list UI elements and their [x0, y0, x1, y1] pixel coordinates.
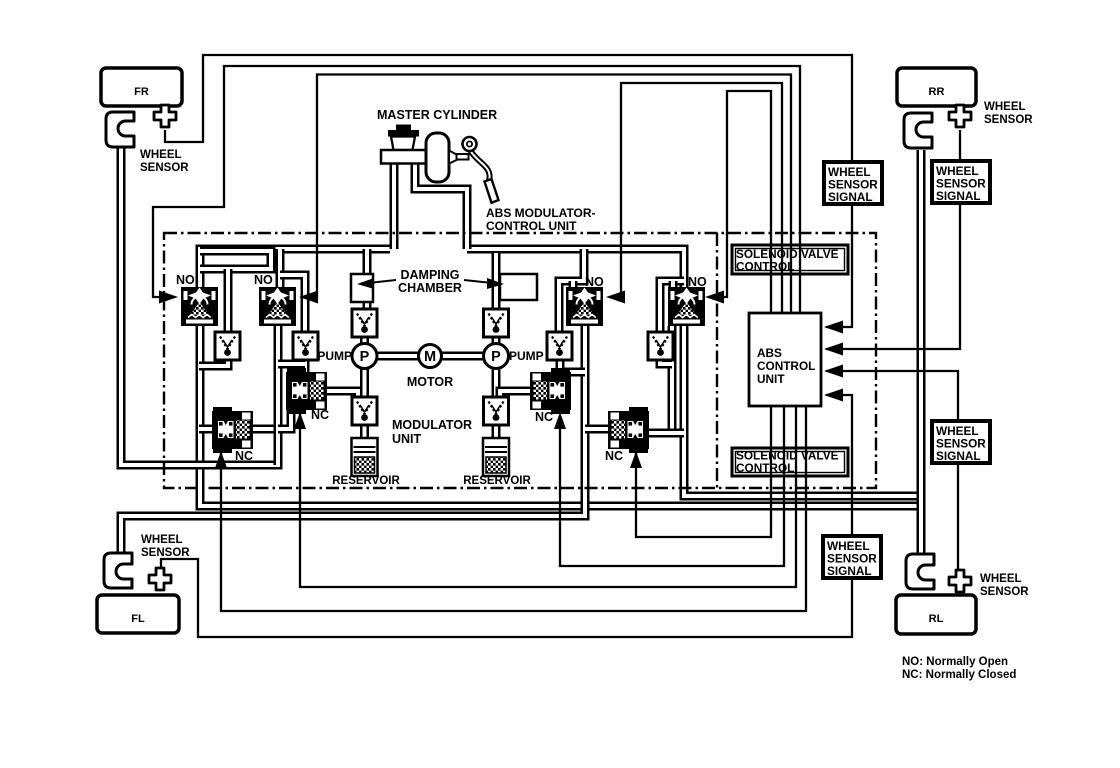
- pipe: NC2 valve to pump suction: [327, 391, 358, 400]
- pipe: NC2 valve bottom stub: [278, 410, 291, 429]
- svg-text:MODULATOR: MODULATOR: [392, 418, 472, 432]
- svg-text:NO: NO: [176, 273, 195, 287]
- pipe: pump R to lower check: [492, 367, 501, 400]
- arrow: RR sensor signal into ABS control unit: [824, 343, 843, 356]
- NO solenoid valve 1: [181, 287, 218, 326]
- svg-text:DAMPING: DAMPING: [400, 268, 459, 282]
- wire: FR wheel sensor signal: [165, 55, 852, 327]
- wire: solenoid control to NO valve 1: [153, 66, 800, 313]
- pipe: valve4 supply jog to check6: [660, 281, 684, 334]
- solenoid valve control box (top): [732, 245, 848, 274]
- pipe: valve3 supply jog to check5: [559, 249, 584, 334]
- svg-text:CHAMBER: CHAMBER: [398, 281, 462, 295]
- arrow into NC valve 2: [294, 412, 306, 429]
- RL wheel box: [896, 595, 976, 634]
- svg-text:UNIT: UNIT: [392, 432, 422, 446]
- FL wheel sensor: [149, 568, 171, 590]
- wire: solenoid control to NO valve 2: [309, 75, 791, 314]
- wire: RR wheel sensor signal: [826, 130, 960, 349]
- pump P left: [352, 344, 377, 369]
- pipe: valve4 inlet stub: [669, 281, 678, 287]
- arrow to damping chamber 1: [369, 280, 396, 283]
- check valve 1 (NO1 bypass): [215, 332, 240, 360]
- NC solenoid valve 1: [212, 407, 253, 453]
- master cylinder with booster and brake pedal: [381, 125, 499, 203]
- pipe: valve1 inlet ring: [200, 251, 271, 269]
- NC solenoid valve 3: [608, 407, 649, 453]
- pipe: pump L to lower check: [360, 367, 369, 400]
- svg-text:FL: FL: [131, 613, 145, 625]
- arrow: FL sensor signal into ABS control unit: [824, 389, 843, 402]
- ABS control unit box: [749, 313, 821, 406]
- pipe: FR brake line from bracket + NC1 output riser: [121, 148, 278, 465]
- FL wheel sensor bracket: [104, 553, 132, 588]
- svg-text:NO: NO: [585, 275, 604, 289]
- arrow into NO valve 1: [159, 291, 178, 304]
- reservoir left: [352, 438, 378, 476]
- pump P right: [484, 344, 509, 369]
- svg-text:RL: RL: [929, 613, 944, 625]
- wire: RL wheel sensor signal: [826, 371, 958, 571]
- arrow into NO valve 4: [705, 291, 724, 304]
- arrow into NO valve 3: [606, 291, 625, 304]
- NO solenoid valve 3: [566, 287, 603, 326]
- svg-text:PUMP: PUMP: [317, 349, 352, 363]
- NC solenoid valve 4: [530, 368, 571, 414]
- svg-text:NO: NO: [688, 275, 707, 289]
- svg-text:ABS MODULATOR-: ABS MODULATOR-: [486, 206, 596, 220]
- arrow to damping chamber 2: [464, 280, 492, 283]
- svg-text:NC: NC: [535, 410, 553, 424]
- reservoir right: [483, 438, 509, 476]
- FR wheel sensor: [154, 105, 176, 127]
- solenoid valve control box (bottom): [732, 448, 848, 476]
- pipe: supply right run + RR brake line drop: [467, 249, 921, 496]
- svg-text:PUMP: PUMP: [509, 349, 544, 363]
- pipe: check2 bypass drop: [280, 275, 305, 334]
- pipe: valve3 inlet stub: [569, 281, 578, 288]
- arrow: FR sensor signal into ABS control unit: [824, 321, 843, 334]
- svg-text:FR: FR: [134, 86, 149, 98]
- pipe: lower check to reservoir R: [492, 420, 501, 440]
- wire: solenoid control to NO valve 4: [719, 91, 771, 313]
- pipe: damping chamber 1 drop: [363, 249, 372, 312]
- svg-text:UNIT: UNIT: [757, 372, 785, 386]
- svg-text:NO: Normally Open: NO: Normally Open: [902, 656, 1008, 668]
- svg-text:NC: Normally Closed: NC: Normally Closed: [902, 669, 1016, 681]
- wire: solenoid control to NC valve 1: [221, 406, 806, 611]
- svg-text:CONTROL: CONTROL: [736, 461, 794, 475]
- pipe: NC3 valve left pipe: [585, 425, 609, 434]
- pipe: check1 bypass drop: [224, 269, 233, 334]
- svg-text:SENSOR: SENSOR: [980, 586, 1029, 598]
- pipe: damping chamber 2 drop: [492, 253, 501, 312]
- pipe: motor shaft left: [377, 352, 418, 361]
- wheel sensor signal label box (RL line): [932, 421, 990, 463]
- svg-text:SIGNAL: SIGNAL: [936, 449, 981, 463]
- damping chamber 1: [351, 274, 373, 302]
- svg-text:SENSOR: SENSOR: [141, 547, 190, 559]
- wire: solenoid control to NO valve 3: [613, 83, 782, 313]
- FL wheel box: [97, 595, 179, 633]
- svg-text:WHEEL: WHEEL: [984, 101, 1026, 113]
- svg-text:NC: NC: [311, 408, 329, 422]
- pipe: master cylinder outlet 1: [390, 163, 399, 249]
- svg-text:SIGNAL: SIGNAL: [828, 190, 873, 204]
- pipe: NC4 valve to pump suction: [500, 391, 530, 400]
- pipe: check6 rejoin: [660, 360, 672, 364]
- pipe: lower check to reservoir L: [360, 420, 369, 440]
- svg-text:RESERVOIR: RESERVOIR: [463, 475, 531, 487]
- pipe: NC3 valve right pipe: [648, 429, 684, 438]
- wire: solenoid control to NC valve 3: [636, 406, 771, 537]
- pump R inlet check valve: [484, 397, 509, 425]
- pipe: master cylinder outlet 2: [415, 163, 467, 249]
- svg-text:CONTROL UNIT: CONTROL UNIT: [486, 219, 577, 233]
- RL wheel sensor: [949, 570, 971, 592]
- FR wheel sensor bracket: [106, 112, 134, 147]
- svg-text:CONTROL: CONTROL: [757, 359, 815, 373]
- svg-text:WHEEL: WHEEL: [141, 534, 183, 546]
- motor M: [419, 345, 442, 368]
- svg-text:RESERVOIR: RESERVOIR: [332, 475, 400, 487]
- svg-text:RR: RR: [929, 86, 945, 98]
- svg-text:P: P: [491, 349, 501, 365]
- svg-text:CONTROL: CONTROL: [736, 260, 794, 274]
- arrow into NC valve 3: [630, 451, 642, 468]
- RR wheel box: [897, 68, 976, 106]
- pipe: check2 to NC2 valve: [301, 360, 310, 373]
- svg-text:SENSOR: SENSOR: [140, 162, 189, 174]
- FR wheel box: [101, 68, 182, 106]
- svg-text:NC: NC: [235, 449, 253, 463]
- svg-text:WHEEL: WHEEL: [140, 149, 182, 161]
- wire: FL wheel sensor signal: [161, 395, 852, 637]
- wheel sensor signal label box (RR line): [932, 161, 990, 203]
- pipe: right wheels vertical line (RR to RL): [917, 150, 926, 553]
- RR wheel sensor bracket: [904, 113, 932, 148]
- pipe: master-cylinder supply left run + modulator left edge + RL brake line: [200, 249, 921, 506]
- svg-text:NO: NO: [254, 273, 273, 287]
- check valve 6 (NO4 branch): [648, 332, 673, 360]
- svg-text:SENSOR: SENSOR: [984, 114, 1033, 126]
- NC solenoid valve 2: [286, 368, 327, 414]
- damping chamber 2: [500, 274, 537, 300]
- svg-text:MOTOR: MOTOR: [407, 375, 453, 389]
- svg-text:M: M: [424, 349, 436, 365]
- pipe: valve2 output rejoin stub: [278, 360, 305, 369]
- RR wheel sensor: [949, 105, 971, 127]
- NO solenoid valve 2: [259, 287, 296, 326]
- pipe: valve4 output vertical: [668, 326, 677, 433]
- arrow into NC valve 4: [554, 412, 566, 429]
- pipe: NC1 valve input: [199, 425, 213, 434]
- pipe: check5 to NC4 valve: [556, 361, 565, 375]
- svg-text:MASTER CYLINDER: MASTER CYLINDER: [377, 108, 497, 122]
- pipe: valve2 output vertical: [274, 326, 283, 465]
- pipe: check-to-pump R: [492, 334, 501, 345]
- pipe: check5 junction stub: [560, 368, 585, 377]
- wire: solenoid control to NC valve 2: [300, 406, 796, 587]
- ABS modulator-control unit dash-dot boundary: [164, 233, 876, 488]
- RL wheel sensor bracket: [906, 554, 934, 589]
- pipe: check1 bypass return: [199, 360, 228, 366]
- wire: solenoid control to NC valve 4: [560, 406, 784, 566]
- check valve 2 (NO2 bypass): [293, 332, 318, 360]
- arrow into NO valve 2: [299, 291, 318, 304]
- svg-text:SIGNAL: SIGNAL: [936, 189, 981, 203]
- wheel sensor signal label box (FL line): [823, 536, 881, 578]
- svg-text:P: P: [360, 349, 370, 365]
- svg-text:SIGNAL: SIGNAL: [827, 564, 872, 578]
- pipe: valve2 inlet: [276, 249, 285, 287]
- check valve 5 (NO3 branch): [547, 332, 572, 360]
- arrow: RL sensor signal into ABS control unit: [824, 365, 843, 378]
- arrow into NC valve 1: [215, 451, 227, 468]
- pipe: motor shaft right: [442, 352, 484, 361]
- pipe: check-to-pump L: [360, 334, 369, 345]
- svg-text:NC: NC: [605, 449, 623, 463]
- NO solenoid valve 4: [668, 287, 705, 326]
- pump R outlet check valve: [484, 309, 509, 337]
- pump L outlet check valve: [352, 309, 377, 337]
- pipe: FL brake line from bracket + valve3 output riser: [121, 326, 585, 553]
- svg-text:ABS: ABS: [757, 346, 782, 360]
- svg-text:WHEEL: WHEEL: [980, 573, 1022, 585]
- pump L inlet check valve: [352, 397, 377, 425]
- wheel sensor signal label box (FR line): [824, 162, 882, 204]
